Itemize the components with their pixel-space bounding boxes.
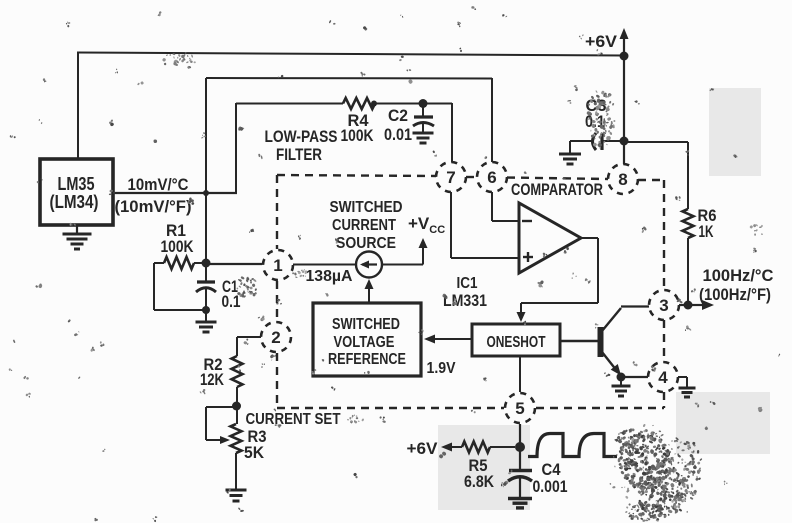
svg-text:+6V: +6V (407, 439, 439, 458)
svg-text:LOW-PASS: LOW-PASS (265, 127, 338, 146)
svg-text:C2: C2 (388, 106, 408, 125)
svg-text:1K: 1K (699, 222, 714, 241)
svg-text:REFERENCE: REFERENCE (328, 351, 406, 368)
svg-text:CURRENT: CURRENT (332, 217, 396, 234)
svg-text:5K: 5K (244, 443, 265, 462)
svg-text:(LM34): (LM34) (50, 192, 99, 212)
svg-text:0.01: 0.01 (384, 125, 412, 144)
svg-text:4: 4 (658, 368, 668, 387)
svg-text:100K: 100K (161, 237, 195, 256)
svg-text:10mV/°C: 10mV/°C (128, 175, 189, 194)
svg-text:8: 8 (618, 170, 627, 189)
svg-text:+6V: +6V (585, 32, 618, 51)
svg-text:CURRENT SET: CURRENT SET (246, 411, 341, 428)
svg-text:0.001: 0.001 (533, 477, 568, 496)
svg-text:0.1: 0.1 (222, 292, 241, 311)
svg-text:3: 3 (659, 296, 668, 315)
svg-text:(10mV/°F): (10mV/°F) (115, 197, 192, 216)
svg-text:COMPARATOR: COMPARATOR (511, 180, 603, 199)
svg-text:LM35: LM35 (58, 174, 95, 194)
svg-text:2: 2 (271, 328, 280, 347)
svg-text:IC1: IC1 (457, 275, 478, 292)
svg-text:ONESHOT: ONESHOT (487, 334, 546, 351)
svg-text:138µA: 138µA (306, 268, 353, 285)
svg-text:VOLTAGE: VOLTAGE (334, 334, 395, 351)
svg-text:SWITCHED: SWITCHED (332, 316, 400, 333)
svg-text:(100Hz/°F): (100Hz/°F) (699, 285, 771, 304)
svg-text:1.9V: 1.9V (427, 360, 456, 377)
svg-text:6: 6 (487, 168, 496, 187)
svg-text:5: 5 (515, 399, 524, 418)
svg-text:100Hz/°C: 100Hz/°C (703, 266, 774, 285)
svg-text:FILTER: FILTER (276, 145, 322, 164)
svg-text:SWITCHED: SWITCHED (330, 199, 403, 216)
svg-text:100K: 100K (341, 126, 375, 145)
svg-text:LM331: LM331 (443, 291, 487, 310)
svg-text:SOURCE: SOURCE (336, 235, 396, 252)
svg-text:1: 1 (273, 256, 282, 275)
svg-text:6.8K: 6.8K (464, 472, 495, 491)
svg-text:12K: 12K (200, 370, 225, 389)
svg-text:7: 7 (446, 168, 455, 187)
